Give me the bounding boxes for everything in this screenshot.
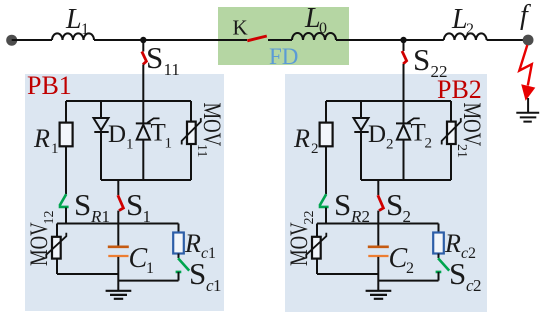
wire: bus1 to thyristor T2 (403, 101, 405, 123)
terminal dot left (6, 35, 17, 46)
wire: S11 to bus1 PB1 (142, 65, 144, 102)
svg-text:R: R (184, 229, 201, 258)
wire: bus1 to diode D1 (100, 101, 102, 118)
wire: L2 to terminal f (487, 39, 523, 41)
capacitor C2 (368, 246, 389, 249)
svg-text:11: 11 (164, 60, 180, 79)
svg-text:1: 1 (213, 276, 222, 295)
wire: Rc1 to switch Sc1 (178, 254, 180, 259)
svg-text:2: 2 (473, 276, 482, 295)
wire: SR2 to bus3 PB2 (325, 208, 327, 224)
wire: left terminal to L1 (12, 39, 52, 41)
bus2 PB1 (101, 179, 191, 181)
thyristor T1 (136, 122, 151, 124)
diode D2 (354, 118, 369, 130)
inductor L2 (444, 33, 487, 40)
thyristor T1 gate (147, 118, 159, 123)
svg-text:S: S (146, 40, 163, 75)
switch S22 blade (402, 51, 407, 64)
switch S11 wire upper (142, 40, 144, 52)
ground PB2 (366, 291, 392, 299)
switch S1 blade (118, 195, 124, 210)
varistor MOV11 (187, 122, 196, 144)
lower-left bus PB1 (57, 273, 118, 275)
wire: bus3 to MOV22 (316, 224, 318, 237)
wire: bolt to fault ground (527, 98, 529, 113)
wire: C1 to ground PB1 (117, 257, 119, 290)
svg-text:0: 0 (319, 20, 327, 37)
resistor Rc1 (173, 233, 184, 254)
svg-text:FD: FD (269, 44, 298, 69)
svg-text:L: L (65, 4, 82, 35)
wire: bus3 to MOV12 (56, 224, 58, 237)
svg-text:C: C (389, 243, 408, 274)
inductor L1 (52, 33, 94, 40)
switch S11 blade (142, 52, 147, 65)
svg-text:MOV: MOV (284, 222, 312, 266)
terminal dot f (523, 35, 534, 46)
wire: bus1 to thyristor T1 (142, 101, 144, 123)
wire: S22 to bus1 PB2 (403, 64, 405, 101)
wire: bus3 to capacitor C1 (117, 224, 119, 247)
varistor MOV21 (447, 122, 456, 144)
svg-text:2: 2 (311, 141, 319, 157)
PB1 block background (25, 74, 224, 311)
inductor L0 (292, 33, 336, 40)
wire: MOV12 to lower-left bus (56, 259, 58, 274)
wire: bus1 to R2 (325, 101, 327, 123)
wire: Sc1 to lower-right bus (178, 272, 180, 281)
thyristor T2 (396, 122, 411, 124)
switch K blade (247, 36, 266, 41)
wire: D2 to bus2 PB2 (360, 132, 362, 180)
wire: L0 to node B (336, 39, 404, 41)
wire: bus3 to Rc2 (438, 224, 440, 233)
wire: MOV11 to bus2 (190, 144, 192, 180)
wire: Sc2 to lower-right bus PB2 (438, 272, 440, 281)
wire: D1 to bus2 (100, 132, 102, 180)
label MOV11 (194, 103, 227, 158)
svg-text:MOV: MOV (24, 222, 52, 266)
bus3 PB2 (317, 223, 439, 225)
svg-text:1: 1 (126, 137, 134, 153)
lower-right bus PB2 (378, 280, 438, 282)
wire: T2 to bus2 PB2 (403, 140, 405, 180)
switch Sc2 blade (436, 258, 450, 272)
wire: node A to switch K (143, 39, 247, 41)
label MOV21 (454, 103, 487, 159)
switch S2 blade (378, 195, 384, 210)
svg-text:C: C (129, 243, 148, 274)
wire: MOV22 to lower-left bus PB2 (316, 259, 318, 274)
resistor R2 (320, 123, 333, 147)
wire: K to L0 (268, 39, 292, 41)
wire: C2 to ground PB2 (377, 257, 379, 290)
label MOV12 (24, 211, 57, 267)
wire: bus1 to MOV11 (190, 101, 192, 122)
svg-text:12: 12 (42, 211, 57, 225)
bus1 PB1 top bus (66, 100, 191, 102)
wire: bus2 to switch S1 (117, 180, 119, 195)
thyristor T2 gate (407, 118, 419, 123)
wire: R2 to switch SR2 (325, 146, 327, 194)
svg-text:T: T (151, 120, 166, 147)
svg-text:S: S (449, 256, 466, 291)
svg-text:D: D (108, 121, 126, 148)
wire: S1 to bus3 (117, 211, 119, 224)
wire: bus1 to R1 (65, 101, 67, 123)
svg-text:1: 1 (165, 136, 173, 152)
svg-text:MOV: MOV (458, 103, 486, 147)
svg-text:S: S (413, 42, 430, 77)
varistor MOV12 (52, 237, 61, 259)
svg-text:22: 22 (431, 62, 448, 81)
wire: SR1 to bus3 (65, 208, 67, 224)
diode D1 (94, 118, 109, 130)
resistor R1 (60, 123, 73, 147)
svg-text:S: S (334, 187, 351, 222)
wire: L1 to node A (94, 39, 143, 41)
svg-text:K: K (233, 16, 248, 40)
svg-text:22: 22 (302, 211, 317, 225)
svg-text:T: T (411, 120, 426, 147)
resistor Rc2 (433, 233, 444, 254)
svg-text:S: S (386, 187, 403, 222)
PB2 block background (285, 74, 487, 312)
fault lightning bolt at f (519, 45, 532, 86)
lower-right bus PB1 (118, 280, 178, 282)
label MOV22 (284, 211, 317, 267)
svg-text:2: 2 (406, 260, 414, 277)
svg-text:1: 1 (146, 260, 154, 277)
svg-text:21: 21 (454, 144, 469, 158)
bus1 PB2 top bus (326, 100, 451, 102)
svg-text:S: S (126, 187, 143, 222)
svg-text:MOV: MOV (198, 103, 226, 147)
svg-text:S: S (189, 256, 206, 291)
node B junction dot (400, 37, 406, 43)
bus2 PB2 (361, 179, 451, 181)
capacitor C1 (108, 246, 129, 249)
svg-text:R: R (293, 124, 310, 153)
wire: bus1 to diode D2 (360, 101, 362, 118)
varistor MOV22 (312, 237, 321, 259)
svg-text:R: R (33, 124, 50, 153)
svg-text:S: S (74, 187, 91, 222)
ground at fault (516, 113, 539, 122)
svg-text:1: 1 (81, 21, 89, 38)
wire: S2 to bus3 PB2 (377, 211, 379, 224)
wire: R1 to switch SR1 (65, 146, 67, 194)
wire: node B to L2 (404, 39, 444, 41)
switch SR2 blade (319, 194, 329, 207)
wire: bus2 to switch S2 (377, 180, 379, 195)
svg-text:2: 2 (466, 21, 474, 38)
switch Sc1 blade (176, 258, 190, 272)
switch SR1 blade (59, 194, 69, 207)
lower-left bus PB2 (317, 273, 378, 275)
svg-text:2: 2 (386, 137, 394, 153)
switch S22 wire upper (403, 40, 405, 51)
svg-text:2: 2 (425, 136, 433, 152)
wire: bus1 to MOV21 (450, 101, 452, 122)
svg-text:1: 1 (208, 245, 216, 262)
node A junction dot (140, 37, 146, 43)
svg-text:PB1: PB1 (27, 71, 72, 100)
wire: bus3 to Rc1 (178, 224, 180, 233)
svg-text:2: 2 (468, 245, 476, 262)
ground PB1 (106, 291, 132, 299)
wire: T1 to bus2 (142, 140, 144, 180)
wire: Rc2 to switch Sc2 (438, 254, 440, 259)
FD block background (218, 7, 349, 65)
wire: MOV21 to bus2 PB2 (450, 144, 452, 180)
svg-text:R: R (444, 229, 461, 258)
svg-text:D: D (368, 121, 386, 148)
svg-text:1: 1 (51, 141, 59, 157)
wire: bus3 to capacitor C2 (377, 224, 379, 247)
svg-text:11: 11 (194, 144, 209, 157)
bus3 PB1 (57, 223, 179, 225)
